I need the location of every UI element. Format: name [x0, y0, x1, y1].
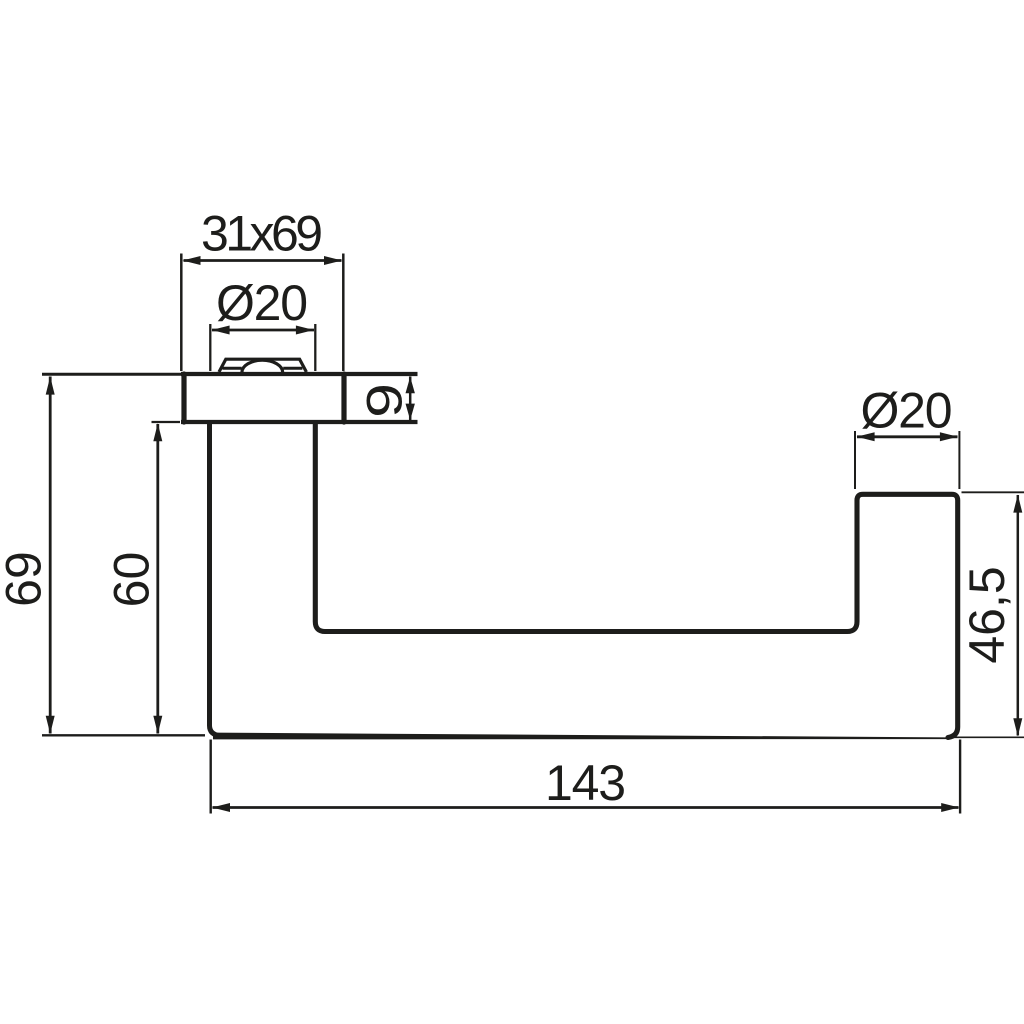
svg-text:9: 9 [358, 383, 413, 418]
svg-text:46,5: 46,5 [959, 566, 1015, 663]
svg-text:69: 69 [0, 551, 52, 607]
svg-text:Ø20: Ø20 [861, 383, 953, 439]
svg-text:31x69: 31x69 [201, 206, 323, 262]
svg-text:Ø20: Ø20 [216, 275, 308, 331]
svg-text:143: 143 [545, 755, 626, 811]
svg-text:60: 60 [104, 552, 160, 608]
